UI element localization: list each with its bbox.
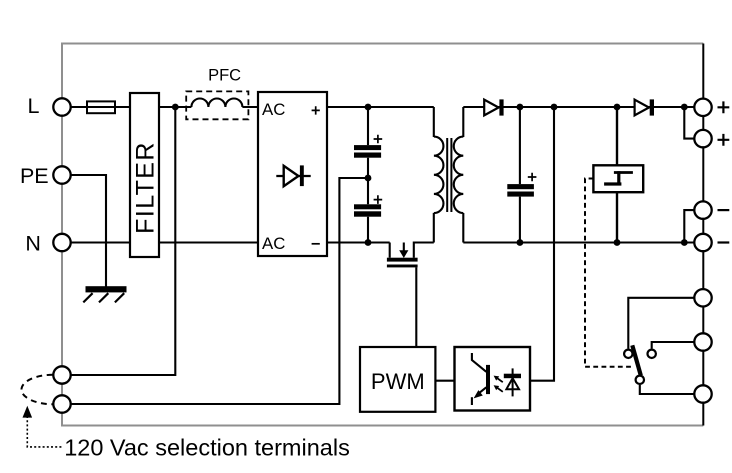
wire terminal 6 to switch contact B [652,342,694,349]
terminal N [53,234,70,251]
bridge + label [312,106,320,114]
junction node rail bottom at caps [365,239,372,246]
dashed control wire comparator to relay [585,179,633,367]
junction node comparator top [614,104,621,111]
terminal PE [53,166,70,183]
svg-text:120 Vac selection terminals: 120 Vac selection terminals [64,434,350,460]
inductor L1 (PFC choke) [191,99,242,108]
terminal 120Vac select 2 [53,395,70,412]
wire terminal 7 to switch common C [640,385,694,394]
wire feedback from opto to secondary rail [530,107,554,381]
transformer T1 primary winding [434,137,444,213]
wire -V branch from terminal 3 [684,210,694,242]
capacitor C2 [354,204,381,209]
relay switch S1 lever [632,345,641,375]
wire bottom rail bridge to mosfet source [327,241,390,243]
svg-text:AC: AC [262,100,285,119]
terminal 120Vac select 1 [53,366,70,383]
transformer T1 primary feed wires [433,107,435,243]
enclosure frame (gray, top/left/bottom) [62,44,703,426]
junction node comparator bottom [614,239,621,246]
transformer T1 secondary winding [454,137,464,213]
junction node rail top at caps [365,104,372,111]
mosfet Q1 [389,243,391,258]
transformer T1 core [447,138,451,212]
optocoupler U3 box [455,347,531,411]
wire N line from terminal to bridge [71,241,258,243]
diode D1 [484,100,498,116]
switch contact A [624,350,632,358]
label + terminal 1 [718,101,730,113]
earth ground symbol [86,286,127,292]
wire secondary bottom rail [463,241,694,243]
bridge diode symbol [276,175,310,177]
opto phototransistor [472,353,486,372]
terminal -V 2 [694,234,711,251]
junction node after D1 [517,104,524,111]
junction node +V out [681,104,688,111]
svg-text:PWM: PWM [371,369,425,394]
output capacitor C3 [519,107,521,243]
wire PE to earth [71,175,106,287]
fuse F1 [87,101,115,113]
svg-text:PFC: PFC [208,67,241,85]
bridge rectifier BR1 box [258,92,327,256]
wire secondary top rail [463,106,694,108]
svg-text:N: N [25,231,41,255]
terminal L [53,98,70,115]
wire terminal 5 to switch contact A [628,298,694,349]
dashed link between selection terminals [21,375,52,404]
wire mosfet gate to PWM [415,267,417,347]
comparator U2 (hysteresis) leads [616,107,618,243]
junction node after filter [172,104,179,111]
terminal +V 2 [694,130,711,147]
terminal relay C [694,385,711,402]
label + terminal 2 [718,134,730,146]
junction node output cap bottom [517,239,524,246]
terminal -V 1 [694,201,711,218]
output bus / right frame edge (black) [702,44,704,426]
svg-text:PE: PE [20,164,49,188]
switch common C [636,376,644,384]
PFC dashed box [186,91,248,119]
svg-text:AC: AC [262,234,285,253]
bulk capacitor chain wires [367,107,369,243]
diode D2 [635,100,649,116]
hysteresis symbol [604,182,621,185]
PWM controller U1 box [360,347,435,412]
label - terminal 2 [718,241,730,243]
FILTER block [130,93,159,257]
transformer T1 secondary feed wires [462,107,464,243]
junction node feedback tap [551,104,558,111]
label - terminal 1 [718,209,730,211]
wire top rail bridge to transformer [327,106,434,108]
comparator U2 box [593,165,643,192]
junction node cap midpoint [365,175,372,182]
terminal +V 1 [694,99,711,116]
wire 120Vac selection terminal 2 to bulk cap midpoint [71,178,368,404]
wire L line from terminal to bridge [71,106,258,108]
switch contact B [648,350,656,358]
svg-text:L: L [28,94,40,118]
wire +V branch to terminal 2 [684,107,694,139]
terminal relay A [694,289,711,306]
terminal relay B [694,333,711,350]
bridge - label [312,243,320,245]
svg-text:FILTER: FILTER [132,141,160,234]
opto LED [512,368,514,396]
junction node -V out [681,239,688,246]
wire 120Vac selection terminal 1 to filter output node [71,107,176,375]
wire PWM to optocoupler [435,380,454,382]
capacitor C1 [354,145,381,150]
opto light arrows [497,378,503,382]
annotation arrow to selection terminals [23,406,33,418]
